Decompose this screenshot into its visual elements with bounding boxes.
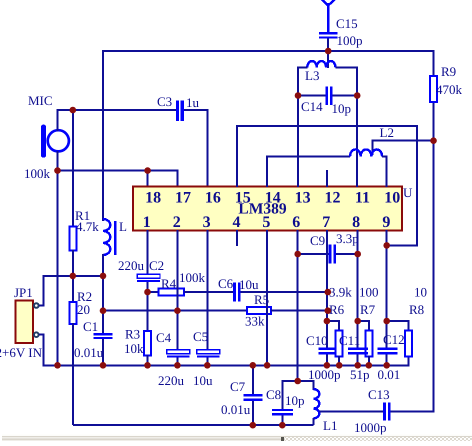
svg-text:220u: 220u (158, 373, 185, 388)
svg-text:C3: C3 (157, 94, 172, 109)
node rail R7 (366, 362, 373, 369)
svg-text:MIC: MIC (28, 93, 53, 108)
node MIC bottom (54, 167, 61, 174)
svg-text:C11: C11 (339, 333, 360, 348)
svg-text:C15: C15 (336, 16, 358, 31)
capacitor C6 (233, 283, 240, 302)
JP1 pin 2 circle (34, 332, 39, 337)
wire R5 line left (103, 310, 248, 312)
capacitor C9 (329, 245, 336, 264)
svg-text:10p: 10p (332, 101, 352, 116)
svg-text:R8: R8 (409, 302, 424, 317)
svg-text:C10: C10 (306, 333, 328, 348)
wire C2 bottom / pin1 lower (147, 282, 149, 332)
wire right rail upper (to R9) (433, 50, 435, 76)
resistor R7 (365, 331, 372, 357)
wire R5 to pin7 (271, 310, 328, 312)
wire C7 bottom (252, 401, 254, 425)
wire tank right side upper (312, 380, 314, 390)
svg-text:2+6V IN: 2+6V IN (0, 345, 43, 360)
wire R4 to C6 (184, 291, 233, 293)
capacitor C1 (94, 333, 113, 339)
wire C15 bottom to rail (327, 39, 329, 68)
status bar strip (2, 435, 472, 441)
inductor L1 (313, 389, 319, 418)
capacitor C10 (318, 347, 336, 354)
svg-text:C13: C13 (368, 387, 390, 402)
svg-text:9: 9 (382, 214, 390, 231)
node L bottom (100, 273, 107, 280)
wire tank left side upper (281, 380, 283, 409)
wire C14 line left (298, 95, 325, 97)
wire R3 bottom to rail (147, 355, 149, 366)
wire R6 bottom (338, 356, 340, 366)
wire R2 bottom to lower rail (72, 323, 74, 425)
wire C5 bottom (206, 358, 208, 367)
node rail C5 (204, 362, 211, 369)
capacitor C2 electrolytic (137, 274, 160, 282)
svg-text:R9: R9 (441, 64, 456, 79)
wire C11 bottom (357, 355, 359, 366)
node C14 left (295, 92, 302, 99)
wire MIC bottom vertical (57, 151, 59, 366)
svg-text:11: 11 (355, 190, 370, 207)
node lower rail C8 (279, 422, 286, 429)
node tank pin6 (294, 378, 301, 385)
wire C3 right to pin16 (184, 110, 208, 187)
svg-text:51p: 51p (350, 367, 370, 382)
wire pin6 down to tank (297, 230, 299, 381)
node rail pin5 (264, 362, 271, 369)
svg-text:18: 18 (145, 190, 161, 207)
wire pin15 to right link (237, 126, 417, 245)
wire pin18 riser (147, 171, 149, 187)
capacitor C15 (319, 32, 338, 38)
inductor L (RF choke) (103, 219, 110, 255)
wire C12 bottom (386, 355, 388, 366)
wire pin12 stub (326, 170, 328, 187)
node C15 rail (325, 48, 332, 55)
resistor R5 (247, 307, 271, 314)
svg-text:100: 100 (359, 285, 379, 300)
capacitor C8 (272, 409, 293, 416)
svg-text:1u: 1u (186, 95, 200, 110)
svg-text:10: 10 (384, 190, 400, 207)
wire 100k feedback line to pins 18,17 (58, 171, 178, 187)
svg-text:3.3p: 3.3p (336, 231, 359, 246)
wire C9 line right (336, 253, 358, 255)
svg-text:3.9k: 3.9k (329, 285, 352, 300)
svg-text:L3: L3 (305, 68, 319, 83)
wire C14 line right (333, 95, 358, 97)
wire R2 line from node (72, 275, 74, 303)
JP1 pin 1 circle (34, 303, 39, 308)
capacitor C13 (383, 402, 390, 420)
node rail C4 (174, 362, 181, 369)
resistor R8 (405, 331, 412, 357)
wire JP1 bottom pin to ground rail (39, 335, 409, 366)
svg-text:2: 2 (173, 214, 181, 231)
node rail R3 (144, 362, 151, 369)
wire R4 line left (148, 291, 160, 293)
node rail C12 (383, 362, 390, 369)
wire pin11 riser (356, 96, 358, 188)
svg-text:7: 7 (322, 214, 330, 231)
wire JP1 top pin riser (39, 275, 43, 306)
wire L3 right side down (336, 68, 358, 97)
node pin8 C9 line (354, 251, 361, 258)
svg-text:1000p: 1000p (354, 420, 387, 435)
node pin9 R8 branch (383, 318, 390, 325)
node pin1 R4 line (144, 289, 151, 296)
svg-text:33k: 33k (245, 314, 265, 329)
svg-text:14: 14 (265, 190, 281, 207)
svg-text:L: L (119, 219, 127, 234)
wire pin9 down (386, 230, 388, 348)
wire left vertical from top rail to L choke (102, 50, 104, 221)
wire right rail lower (R9 to C13) (433, 102, 435, 412)
node rail C1 (100, 362, 107, 369)
svg-text:3: 3 (203, 214, 211, 231)
wire pin8 down (357, 230, 359, 348)
wire lower ground rail (73, 424, 313, 426)
node lower rail C7 (250, 422, 257, 429)
node rail R6 (336, 362, 343, 369)
svg-text:8: 8 (352, 214, 360, 231)
IC U1 LM389 body (133, 187, 402, 231)
svg-text:10: 10 (414, 285, 427, 300)
svg-text:10u: 10u (193, 373, 213, 388)
svg-text:5: 5 (262, 214, 270, 231)
svg-text:100p: 100p (337, 33, 363, 48)
svg-text:10k: 10k (124, 341, 144, 356)
node C14 right (354, 92, 361, 99)
svg-text:R4: R4 (161, 276, 177, 291)
svg-text:0.01u: 0.01u (221, 402, 251, 417)
svg-text:100k: 100k (179, 270, 206, 285)
resistor R1 (69, 227, 76, 251)
wire C13 right to rail (391, 410, 434, 412)
svg-text:L1: L1 (323, 418, 337, 433)
svg-text:220u: 220u (118, 258, 145, 273)
wire R1 bottom to node (72, 250, 74, 277)
svg-text:1: 1 (143, 214, 151, 231)
wire pin5 down (266, 230, 268, 366)
svg-text:C12: C12 (383, 332, 405, 347)
svg-text:R7: R7 (360, 302, 376, 317)
svg-text:15: 15 (235, 190, 251, 207)
node R5 line at L/C1 (100, 307, 107, 314)
capacitor C7 (243, 394, 262, 401)
wire R7 bottom (368, 356, 370, 366)
antenna (320, 0, 336, 32)
node rail C10 (324, 362, 331, 369)
svg-text:JP1: JP1 (14, 285, 33, 300)
svg-text:C7: C7 (230, 379, 246, 394)
svg-text:6: 6 (292, 214, 300, 231)
svg-text:100k: 100k (24, 166, 51, 181)
wire L2 tap line to R9 node (372, 141, 433, 155)
svg-text:4: 4 (233, 214, 241, 231)
svg-text:C4: C4 (156, 330, 172, 345)
svg-text:R6: R6 (329, 302, 345, 317)
node R9 bottom / L2 tap (430, 137, 437, 144)
wire top supply rail (103, 50, 434, 52)
node pin7 C6 line (325, 289, 332, 296)
svg-text:470k: 470k (436, 82, 463, 97)
svg-text:U: U (403, 185, 413, 200)
node rail MIC (54, 362, 61, 369)
resistor R4 (159, 289, 185, 296)
wire pin4 stub (236, 230, 238, 246)
svg-text:L2: L2 (380, 125, 394, 140)
wire R8 branch (387, 321, 409, 331)
svg-text:C2: C2 (149, 258, 164, 273)
resistor R6 (336, 331, 343, 357)
svg-text:17: 17 (175, 190, 191, 207)
svg-text:0.01u: 0.01u (74, 345, 104, 360)
svg-text:C14: C14 (301, 99, 323, 114)
inductor L3 (307, 61, 335, 68)
connector JP1 (15, 301, 32, 344)
wire JP1 rail y276 (43, 275, 103, 277)
capacitor C11 (348, 347, 368, 354)
svg-text:1000p: 1000p (308, 367, 341, 382)
wire C10 bottom (326, 355, 328, 366)
inductor L2 (350, 149, 382, 156)
wire pin3 down (206, 230, 208, 351)
node pin9 upper (383, 242, 390, 249)
capacitor C5 electrolytic (197, 350, 220, 358)
MIC microphone symbol (48, 130, 69, 151)
wire C7 top (252, 365, 254, 394)
wire pin7 down (326, 230, 328, 348)
wire R7 branch (358, 321, 369, 331)
node pin7 R5 line (325, 307, 332, 314)
node R5 line at pin2 (174, 307, 181, 314)
wire R6 branch (327, 321, 339, 331)
svg-text:10u: 10u (239, 277, 259, 292)
wire L1 tank top (282, 380, 313, 382)
wire L3 left side down (298, 68, 307, 97)
wire C6 to pin7 (241, 291, 328, 293)
inductor L core bar (114, 221, 116, 255)
svg-text:C1: C1 (83, 319, 98, 334)
wire pin13 riser (297, 96, 299, 188)
wire L2 right to pin10 (382, 157, 387, 188)
svg-text:R3: R3 (125, 327, 140, 342)
node pin7 R6 branch (324, 318, 331, 325)
wire C9 line left (298, 253, 329, 255)
node rail C11 (354, 362, 361, 369)
svg-text:13: 13 (295, 190, 311, 207)
wire tank left side lower (281, 416, 283, 426)
wire L1 tap to C13 (319, 410, 383, 412)
svg-text:C6: C6 (218, 276, 234, 291)
wire L bottom to node (102, 254, 104, 277)
capacitor C12 (378, 347, 398, 354)
wire pin14 to L2 left (267, 157, 350, 188)
svg-text:16: 16 (205, 190, 221, 207)
svg-text:C8: C8 (266, 387, 281, 402)
svg-text:C9: C9 (310, 233, 325, 248)
wire C1 bottom (102, 339, 104, 366)
capacitor C14 (325, 87, 332, 105)
resistor R3 (144, 331, 151, 356)
svg-text:10p: 10p (285, 393, 305, 408)
wire L/C1 vertical (102, 275, 104, 334)
node pin18 (144, 167, 151, 174)
scrollbar thumb nub (281, 437, 284, 441)
node R1 bottom (70, 273, 77, 280)
wire pin2 down (176, 230, 178, 351)
capacitor C3 (176, 101, 184, 121)
node pin6 C9 line (294, 251, 301, 258)
resistor R9 (430, 76, 437, 102)
wire tank right side lower (312, 418, 314, 425)
svg-text:12: 12 (325, 190, 341, 207)
node pin8 R7 branch (354, 318, 361, 325)
svg-text:4.7k: 4.7k (76, 219, 99, 234)
wire C4 bottom (176, 358, 178, 367)
capacitor C4 electrolytic (167, 350, 190, 358)
wire R1 branch upper (72, 110, 74, 228)
scrollbar checker texture (285, 437, 472, 441)
wire MIC top to C3 line (58, 110, 177, 131)
MIC element bar (41, 125, 46, 158)
svg-text:20: 20 (77, 302, 90, 317)
svg-text:0.01: 0.01 (378, 367, 401, 382)
node rail C7 (250, 362, 257, 369)
node MIC-R1 junction (70, 107, 77, 114)
resistor R2 (69, 302, 76, 324)
svg-text:C5: C5 (193, 329, 208, 344)
wire pin1 down to C2 (147, 230, 149, 275)
